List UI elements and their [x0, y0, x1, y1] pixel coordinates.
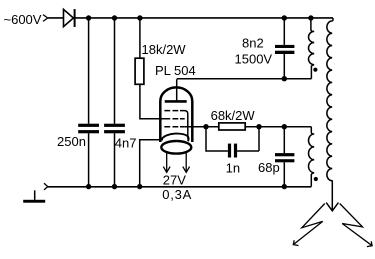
svg-text:27V: 27V [163, 172, 186, 187]
wire cathode to bottom rail [140, 140, 163, 187]
inductor feedback winding [309, 127, 315, 187]
inductor primary winding [309, 18, 315, 79]
svg-text:~600V: ~600V [4, 12, 42, 27]
node bottom rail / 4n7 [112, 184, 117, 189]
node top rail / 250n [86, 15, 91, 20]
node bottom rail / 250n [86, 184, 91, 189]
capacitor 4n7 [104, 18, 125, 187]
svg-text:8n2: 8n2 [242, 35, 264, 50]
node top rail / primary [308, 15, 313, 20]
wire anode line [177, 78, 312, 80]
capacitor 8n2 1500V [275, 18, 294, 79]
spark arrow right [340, 204, 372, 247]
secondary output arrow [326, 181, 338, 211]
ground [23, 190, 45, 202]
wire grid line [185, 126, 312, 128]
node bottom rail / 68p [282, 184, 287, 189]
capacitor 250n [78, 18, 99, 187]
node grid line left [203, 124, 208, 129]
phase dot primary [313, 68, 317, 72]
svg-text:68p: 68p [258, 160, 280, 175]
node top rail / 18k [137, 15, 142, 20]
node grid line right [256, 124, 261, 129]
node top rail / 8n2 [282, 15, 287, 20]
svg-text:18k/2W: 18k/2W [142, 42, 187, 57]
tube cathode [161, 134, 188, 142]
diode [64, 9, 76, 27]
input connector chevron [43, 15, 48, 22]
svg-text:0,3A: 0,3A [162, 187, 192, 202]
svg-text:1n: 1n [226, 161, 240, 176]
capacitor 68p [275, 127, 294, 187]
bottom rail connector chevron [44, 183, 48, 190]
svg-text:PL 504: PL 504 [155, 63, 196, 78]
svg-text:68k/2W: 68k/2W [211, 108, 256, 123]
node anode line / 8n2 bottom [282, 76, 287, 81]
inductor secondary winding [327, 18, 333, 181]
svg-text:250n: 250n [57, 134, 86, 149]
tube grid g2 dashes [164, 118, 184, 120]
resistor 18k/2W [135, 18, 164, 119]
wire top rail [48, 17, 333, 19]
svg-text:4n7: 4n7 [115, 136, 137, 151]
phase dot feedback [314, 177, 318, 181]
tube PL504 envelope [160, 87, 192, 153]
tube heater leads with arrows [163, 151, 189, 172]
svg-text:1500V: 1500V [235, 52, 273, 67]
node bottom rail / cathode [137, 184, 142, 189]
tube anode plate [165, 79, 187, 101]
resistor 68k/2W [219, 123, 245, 130]
tube grid g3 dashes and tie to cathode [164, 111, 188, 141]
spark arrow left [293, 204, 325, 246]
tube grid g1 dashes [164, 126, 184, 128]
node grid line / 68p [282, 124, 287, 129]
capacitor 1n loop [206, 127, 259, 158]
wire bottom rail [48, 186, 311, 188]
node top rail / 4n7 [112, 15, 117, 20]
